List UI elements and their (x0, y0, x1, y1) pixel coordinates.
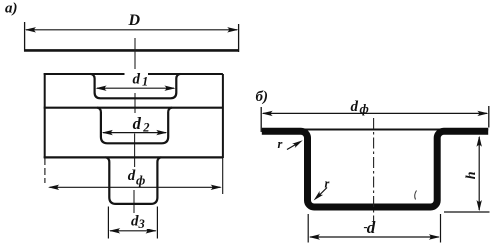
extension line d3 left (107, 207, 109, 239)
left extension below (44, 158, 46, 183)
left edge of strips (44, 73, 46, 158)
svg-text:D: D (128, 12, 141, 29)
dimension d2 arrow right (156, 130, 167, 135)
svg-text:d: d (351, 99, 359, 115)
dimension d1 arrow left (95, 86, 106, 91)
dimension D arrow left (25, 27, 36, 32)
r leader 2 (318, 188, 327, 197)
extension line d right (440, 214, 442, 243)
label d dash (364, 227, 367, 229)
dimension D extension left (24, 22, 26, 52)
dimension d line (310, 236, 439, 238)
right edge of strips (222, 74, 224, 158)
dimension d arrow right (429, 234, 440, 239)
stage 3 top line (44, 156, 223, 158)
dimension d_phi right arrow left (262, 111, 273, 116)
dimension d3 arrow left (109, 228, 120, 233)
svg-text:б): б) (256, 89, 268, 105)
dimension d2 line (103, 132, 166, 134)
svg-text:d: d (133, 72, 141, 88)
svg-text:2: 2 (142, 121, 149, 135)
h bottom extension (444, 211, 490, 213)
r arrow 2 (314, 191, 324, 201)
extension line d3 right (156, 207, 158, 239)
svg-text:r: r (278, 137, 283, 151)
svg-text:ф: ф (360, 101, 369, 116)
blank strip (24, 49, 239, 52)
label d2 backing (129, 113, 152, 132)
dimension h arrow up (477, 136, 482, 147)
stage 1 top line (44, 73, 223, 75)
dimension h arrow down (477, 200, 482, 211)
stray print mark (415, 191, 417, 200)
label d3 backing (129, 213, 149, 229)
svg-text:d: d (133, 114, 142, 133)
right extension below (222, 158, 224, 194)
dimension d_phi right arrow right (477, 111, 488, 116)
stage 2 top line (44, 107, 223, 109)
label d1 backing (125, 69, 149, 87)
dimension d_phi right extension right (488, 106, 490, 128)
cup section profile (262, 131, 488, 207)
svg-text:d: d (367, 218, 376, 237)
svg-text:d: d (128, 168, 136, 184)
extension line d left (307, 214, 309, 243)
dimension d1 line (97, 87, 174, 89)
dimension d2 arrow left (102, 130, 113, 135)
svg-text:h: h (464, 171, 479, 179)
dimension d arrow left (309, 234, 320, 239)
label d_phi backing (126, 167, 149, 186)
r leader 1 (287, 144, 297, 150)
dimension D extension right (238, 24, 240, 52)
svg-text:3: 3 (138, 217, 145, 231)
svg-text:1: 1 (142, 75, 148, 89)
centerline left figure (134, 38, 135, 214)
dimension d_phi arrow left (48, 185, 59, 190)
dimension d_phi arrow right (211, 185, 222, 190)
dimension d1 arrow right (164, 86, 175, 91)
mouth line right figure (262, 129, 488, 131)
svg-text:а): а) (5, 1, 18, 17)
dimension d3 arrow right (146, 228, 157, 233)
svg-text:ф: ф (136, 173, 145, 188)
dimension h line (478, 137, 480, 210)
dimension d_phi line left figure (50, 186, 221, 188)
stage 2 depression (97, 108, 172, 144)
label d backing (360, 222, 385, 235)
stage 3 depression (105, 157, 161, 204)
r arrow 1 (292, 140, 303, 148)
dimension D line (26, 29, 237, 31)
stage 1 depression (91, 74, 181, 98)
svg-text:r: r (325, 177, 330, 191)
dimension D arrow right (227, 27, 238, 32)
dimension d_phi right line (263, 112, 487, 114)
centerline right figure (373, 118, 375, 234)
dimension d_phi right extension left (260, 107, 262, 132)
dimension d3 line (110, 230, 156, 232)
